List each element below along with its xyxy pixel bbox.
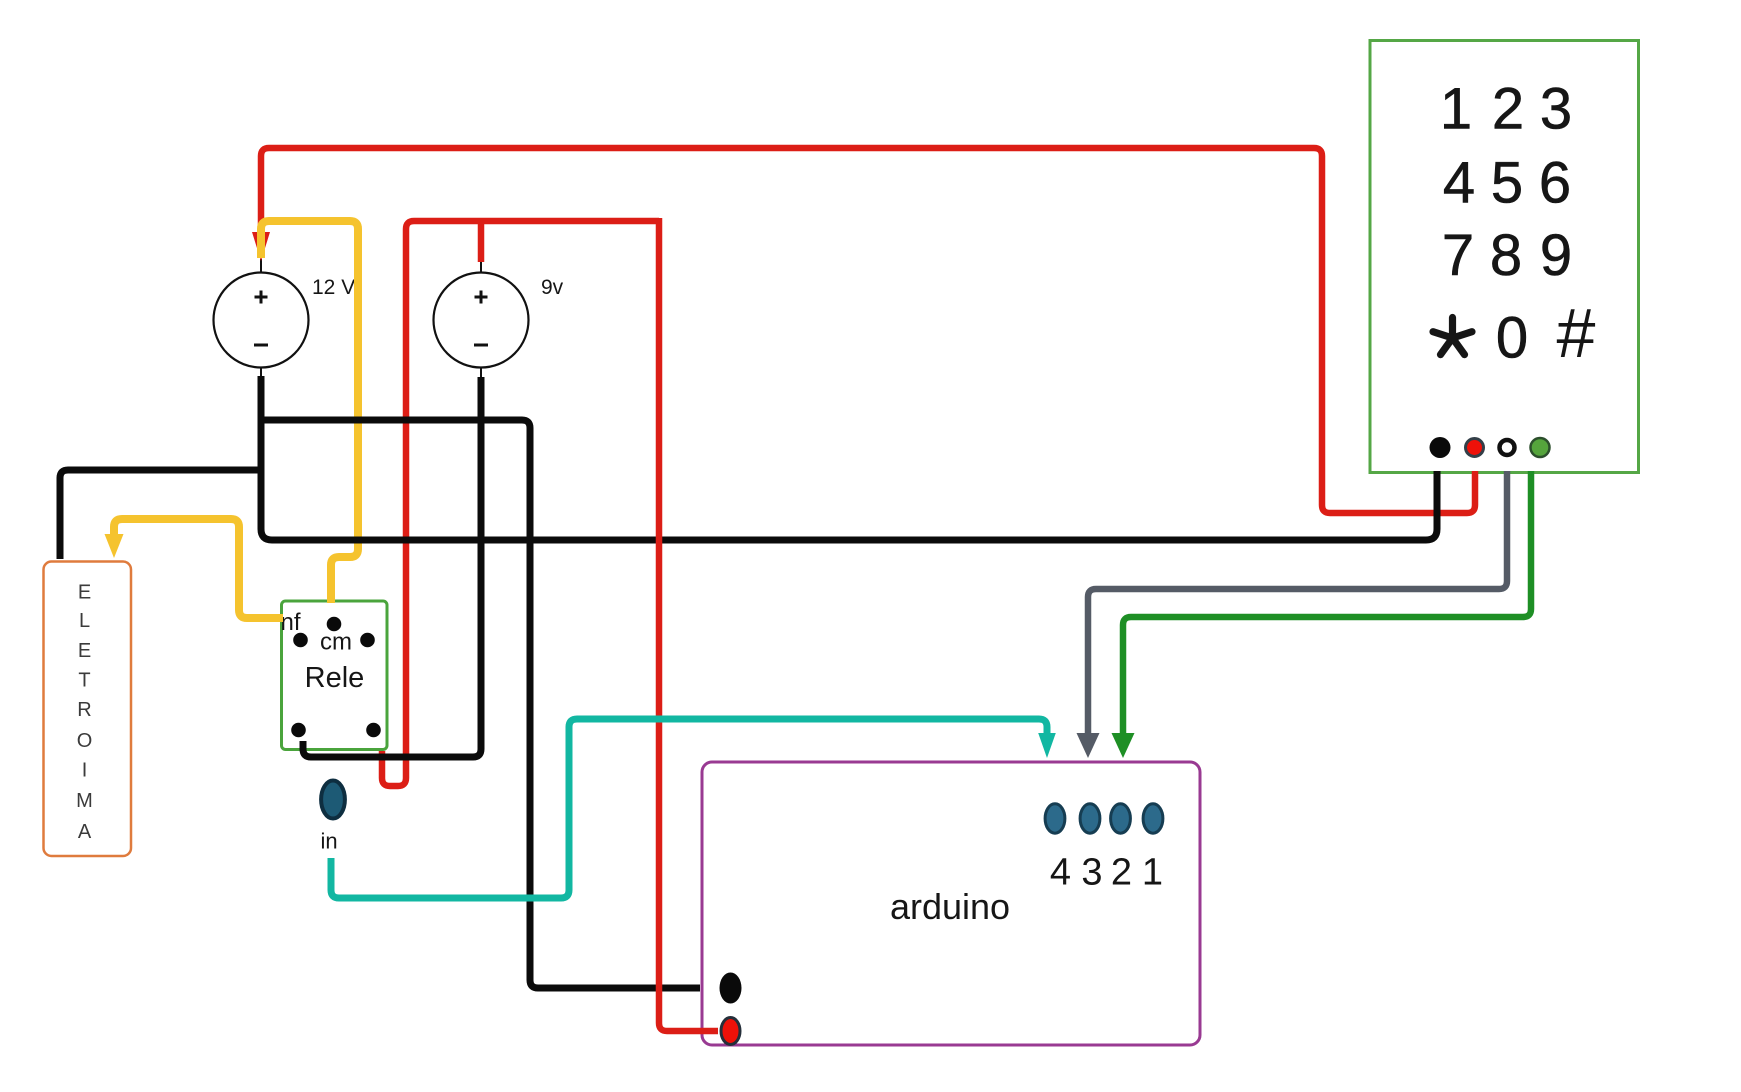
relay Rele [280,601,387,750]
svg-text:5: 5 [1491,151,1523,216]
svg-text:A: A [78,821,92,843]
wire black branch to arduino GND [261,420,700,988]
svg-text:#: # [1557,294,1596,372]
relay pin top [327,617,342,632]
wire red keypad red pin to 12V+ [261,148,1475,513]
svg-text:4: 4 [1050,852,1071,894]
svg-text:3: 3 [1540,77,1572,142]
svg-text:I: I [82,760,88,782]
arduino pin 1 [1143,804,1163,833]
svg-text:12 V: 12 V [312,276,355,299]
svg-text:T: T [78,670,90,692]
keypad pin dot black [1430,437,1451,458]
svg-text:Rele: Rele [305,662,365,694]
svg-text:E: E [78,640,91,662]
voltage source 9v [434,261,564,377]
arrowhead gray at arduino [1077,733,1100,758]
svg-text:9v: 9v [541,276,564,299]
svg-text:8: 8 [1490,223,1522,288]
pushbutton in [321,781,345,819]
svg-text:6: 6 [1539,151,1571,216]
svg-text:L: L [79,610,90,632]
svg-text:M: M [76,790,93,812]
keypad pin dot green [1531,438,1550,457]
wire yellow Rele nf to ELETROIMA [114,519,283,618]
arrowhead red at 12V+ [252,232,270,261]
svg-text:4: 4 [1443,151,1475,216]
keypad pin dot red [1466,439,1484,457]
svg-text:2: 2 [1111,852,1132,894]
wire black 12V- to keypad black pin [261,376,1437,540]
arrowhead green at arduino [1112,733,1135,758]
wire red 9v+ to arduino VIN [659,218,718,1031]
svg-text:1: 1 [1440,77,1472,142]
voltage source 12V [214,259,356,377]
wire black branch to ELETROIMA [60,470,261,559]
svg-text:1: 1 [1142,852,1163,894]
svg-text:O: O [77,730,93,752]
svg-text:E: E [78,582,91,604]
arrowhead teal at arduino [1038,733,1056,758]
svg-text:cm: cm [320,629,352,656]
arduino GND pin black [720,973,742,1004]
wire teal pushbutton to arduino [331,719,1047,898]
keypad pin dot white [1500,440,1515,455]
relay pin right [360,633,375,648]
arduino pin 3 [1080,804,1100,833]
svg-text:0: 0 [1496,306,1528,371]
svg-text:in: in [320,829,337,854]
arduino VIN pin red [721,1018,740,1045]
relay pin bottom-right [366,723,381,738]
svg-text:nf: nf [280,609,300,636]
svg-text:9: 9 [1540,223,1572,288]
wire green keypad to arduino pin1 [1123,471,1531,735]
wire yellow 12V+ to Rele coil [261,221,358,603]
svg-text:arduino: arduino [890,886,1010,927]
arrowhead yellow at ELETROIMA [105,534,124,558]
wire red stub to 9v+ [478,221,485,262]
relay pin nf [293,633,308,648]
wire red 9v+ loop to Rele and stub [382,221,659,786]
arduino U1 [702,762,1200,1045]
svg-text:3: 3 [1081,852,1102,894]
arduino pin 2 [1111,804,1131,833]
svg-text:7: 7 [1442,223,1474,288]
wire black 9v- to Rele common [303,377,481,757]
arduino pin 4 [1045,804,1065,833]
electromagnet ELETROIMA [44,562,132,857]
wire gray keypad to arduino pin2 [1088,471,1507,735]
relay pin bottom-left [291,723,306,738]
svg-text:2: 2 [1492,77,1524,142]
svg-text:R: R [77,699,91,721]
keypad KP1 [1370,41,1639,473]
